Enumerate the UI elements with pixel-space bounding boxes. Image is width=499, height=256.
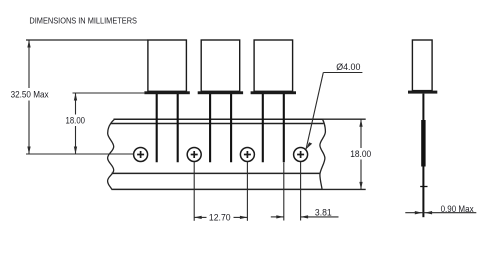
svg-text:32.50 Max: 32.50 Max (11, 90, 49, 100)
dimension 18.00 right extension line bottom (322, 188, 366, 190)
capacitor C3 lead 1 (262, 94, 264, 162)
dimension 32.50 Max arrow up (27, 40, 30, 48)
tape carrier top edge line B (111, 123, 324, 125)
dimension 0.90 Max arrow pointing left at lead (425, 211, 433, 214)
extension line at hole centerline (bottom of 32.50 and 18.00) (26, 153, 134, 155)
side view capacitor body (412, 40, 432, 91)
dimension 18.00 right arrow up (359, 119, 362, 127)
dimension 0.90 Max dimension line (405, 212, 476, 214)
extension line below hole H4 (300, 162, 302, 221)
dimension 18.00 left extension line top (at flange) (73, 92, 145, 94)
tape carrier bottom edge line D (112, 188, 323, 190)
dimension 32.50 Max arrow down (27, 147, 30, 155)
side view tape edge-on thick segment (421, 120, 425, 167)
dimension 18.00 left arrow down (74, 147, 77, 155)
sprocket hole H2 (187, 148, 201, 162)
dimension 18.00 right dimension line (broken by text) (360, 119, 362, 148)
side view tape line tick (420, 186, 427, 188)
dimension 32.50 Max dimension line (broken by text) (28, 40, 30, 88)
sprocket hole H1 (134, 148, 148, 162)
dimension 18.00 right arrow down (359, 182, 362, 190)
side view lead upper thin segment (422, 94, 424, 120)
dimension 0.90 Max arrow pointing right at lead (415, 211, 423, 214)
dimension 18.00 left dimension line (broken by text) (75, 93, 77, 115)
dimension 18.00 left arrow up (74, 93, 77, 101)
dimension 12.70 arrow right (240, 216, 248, 219)
side view base flange (408, 91, 437, 94)
svg-text:3.81: 3.81 (315, 207, 332, 217)
svg-text:12.70: 12.70 (209, 213, 231, 223)
sprocket hole H4 (294, 148, 308, 162)
side view lead lower thin segment (422, 167, 424, 218)
capacitor C2 lead 1 (209, 94, 211, 162)
extension line below capacitor C3 lead 2 (283, 163, 285, 221)
tape break line left (wavy) (108, 119, 115, 189)
capacitor C2 lead 2 (230, 94, 232, 162)
svg-text:18.00: 18.00 (350, 149, 371, 159)
dimension 32.50 Max extension line top (26, 39, 148, 41)
svg-text:Ø4.00: Ø4.00 (336, 62, 360, 72)
capacitor C1 lead 2 (177, 94, 179, 162)
capacitor C3 lead 2 (283, 94, 285, 162)
capacitor C1 lead 1 (156, 94, 158, 162)
sprocket hole H3 (240, 148, 254, 162)
capacitor C1 body (148, 40, 187, 91)
tape break line right (wavy) (320, 119, 326, 189)
tape carrier top edge line A (114, 118, 323, 120)
dimension 18.00 right extension line top (323, 118, 366, 120)
capacitor C1 base flange (144, 91, 189, 94)
capacitor C2 body (201, 40, 240, 91)
leader Ø4.00 diagonal with arrow at hole H4 (306, 73, 323, 150)
capacitor C3 base flange (251, 91, 296, 94)
dimension 12.70 arrow left (194, 216, 202, 219)
leader Ø4.00 shoulder line (323, 72, 362, 74)
capacitor C3 body (254, 40, 293, 91)
extension line below hole H2 (193, 162, 195, 221)
dimension 12.70 dimension line (broken by text) (194, 216, 206, 218)
dimension 3.81 left tail and arrow (271, 216, 284, 218)
svg-text:DIMENSIONS IN MILLIMETERS: DIMENSIONS IN MILLIMETERS (29, 16, 137, 26)
svg-text:0.90 Max: 0.90 Max (441, 204, 474, 214)
extension line below hole H3 (246, 162, 248, 221)
capacitor C2 base flange (198, 91, 243, 94)
tape carrier lower line C (112, 172, 321, 174)
svg-text:18.00: 18.00 (66, 116, 86, 126)
dimension 3.81 right line and arrow (301, 216, 339, 218)
